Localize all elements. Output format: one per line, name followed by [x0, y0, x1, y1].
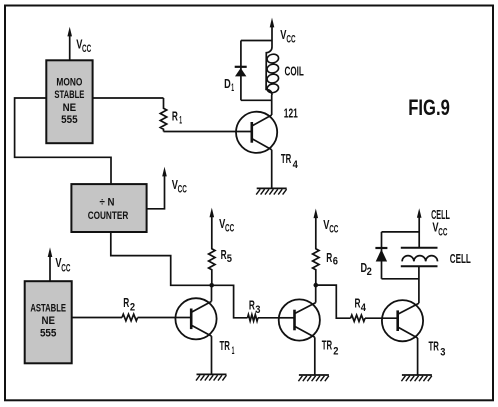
node B junction dot [314, 283, 319, 288]
svg-text:NE: NE [41, 315, 55, 327]
svg-text:1: 1 [232, 345, 235, 357]
svg-text:FIG.9: FIG.9 [408, 95, 450, 120]
wire TR2 collector to node B [315, 285, 317, 303]
resistor R3 [248, 299, 261, 321]
svg-text:1: 1 [179, 115, 182, 127]
svg-text:TR: TR [281, 152, 291, 166]
wire TR2 emitter to ground [314, 337, 316, 375]
wire TR4 collector to coil [271, 95, 273, 115]
transistor TR3 [382, 300, 446, 358]
power VCC arrow (monostable) [67, 27, 91, 61]
transistor TR1 [175, 298, 234, 357]
wire D1 top to Vcc line [241, 40, 272, 42]
svg-text:R: R [221, 248, 227, 262]
wire TR1 collector to node A [211, 285, 213, 301]
power VCC arrow (counter) [162, 167, 187, 196]
power CELL VCC arrow [417, 208, 450, 248]
svg-text:CC: CC [225, 223, 234, 235]
svg-text:CC: CC [438, 227, 447, 239]
ground (TR2) [298, 375, 329, 381]
wire node B to R4 [316, 285, 351, 318]
resistor R5 [209, 217, 232, 286]
resistor R1 [160, 98, 182, 132]
power VCC arrow (R5) [210, 208, 235, 235]
power VCC arrow (astable) [48, 247, 71, 281]
svg-text:R: R [355, 297, 361, 311]
svg-text:MONO: MONO [56, 77, 82, 89]
svg-text:R: R [326, 251, 332, 265]
wire counter to Vcc [147, 176, 165, 209]
wire node A to R3 [212, 285, 248, 318]
wire R2 to TR1 base [138, 317, 176, 319]
svg-text:COUNTER: COUNTER [88, 210, 129, 222]
wire D2 bottom to TR3 collector [382, 278, 420, 280]
transducer CELL [401, 248, 471, 266]
wire astable to R2 [72, 317, 122, 319]
block U2 divide-by-N COUNTER [71, 184, 146, 232]
wire D2 top to cell Vcc [382, 231, 420, 233]
resistor R2 [122, 296, 138, 321]
svg-text:3: 3 [255, 304, 260, 316]
wire TR3 emitter to ground [417, 338, 419, 375]
svg-text:R: R [249, 299, 255, 313]
svg-text:CC: CC [82, 43, 91, 55]
transistor TR2 [279, 299, 339, 357]
svg-text:NE: NE [63, 102, 77, 114]
wire monostable to R1 [93, 97, 164, 99]
svg-text:CC: CC [61, 262, 70, 274]
node A junction dot [209, 283, 214, 288]
svg-text:R: R [123, 296, 129, 310]
diode D1 [224, 41, 247, 101]
svg-text:TR: TR [220, 339, 230, 353]
svg-text:6: 6 [333, 256, 338, 268]
wire R1 to TR4 base [164, 131, 236, 133]
wire TR4 emitter to ground [271, 150, 273, 189]
svg-text:4: 4 [293, 159, 299, 171]
wire D1 bottom to node 121 [241, 99, 272, 101]
transistor TR4 [236, 112, 299, 171]
wire monostable output to counter input [15, 98, 111, 184]
wire R3 to TR2 base [258, 317, 279, 319]
svg-text:CC: CC [329, 223, 338, 235]
diode D2 [361, 232, 388, 279]
power VCC arrow (R6) [314, 209, 339, 236]
resistor R6 [313, 217, 338, 285]
svg-text:÷ N: ÷ N [100, 196, 115, 208]
ground (TR4) [256, 188, 287, 194]
svg-text:2: 2 [130, 302, 135, 314]
svg-text:2: 2 [367, 266, 372, 278]
svg-text:TR: TR [322, 339, 332, 353]
svg-text:3: 3 [440, 347, 445, 359]
svg-text:STABLE: STABLE [54, 89, 84, 101]
wire cell bottom to TR3 collector [418, 266, 420, 303]
svg-text:CELL: CELL [450, 252, 471, 266]
svg-text:555: 555 [40, 328, 57, 340]
ground (TR3) [401, 375, 432, 381]
inductor COIL [266, 47, 304, 96]
svg-text:1: 1 [231, 82, 234, 94]
svg-text:D: D [224, 77, 231, 91]
wire counter output to TR1 collector node [111, 232, 212, 285]
block U3 ASTABLE NE 555 [25, 281, 72, 363]
power VCC arrow (coil) [270, 18, 296, 47]
svg-text:4: 4 [361, 302, 367, 314]
wire R4 to TR3 base [365, 317, 382, 319]
svg-text:CC: CC [286, 34, 295, 46]
svg-text:2: 2 [333, 346, 338, 358]
svg-text:5: 5 [227, 253, 232, 265]
svg-text:R: R [172, 109, 178, 123]
svg-text:ASTABLE: ASTABLE [30, 303, 66, 315]
resistor R4 [351, 297, 367, 322]
wire TR1 emitter to ground [211, 336, 213, 374]
svg-text:COIL: COIL [285, 65, 305, 79]
svg-text:CC: CC [178, 183, 187, 195]
ground (TR1) [196, 374, 227, 380]
svg-text:555: 555 [61, 114, 78, 126]
block U1 MONOSTABLE NE 555 [46, 60, 92, 143]
svg-text:121: 121 [284, 107, 298, 121]
svg-text:TR: TR [429, 339, 439, 353]
